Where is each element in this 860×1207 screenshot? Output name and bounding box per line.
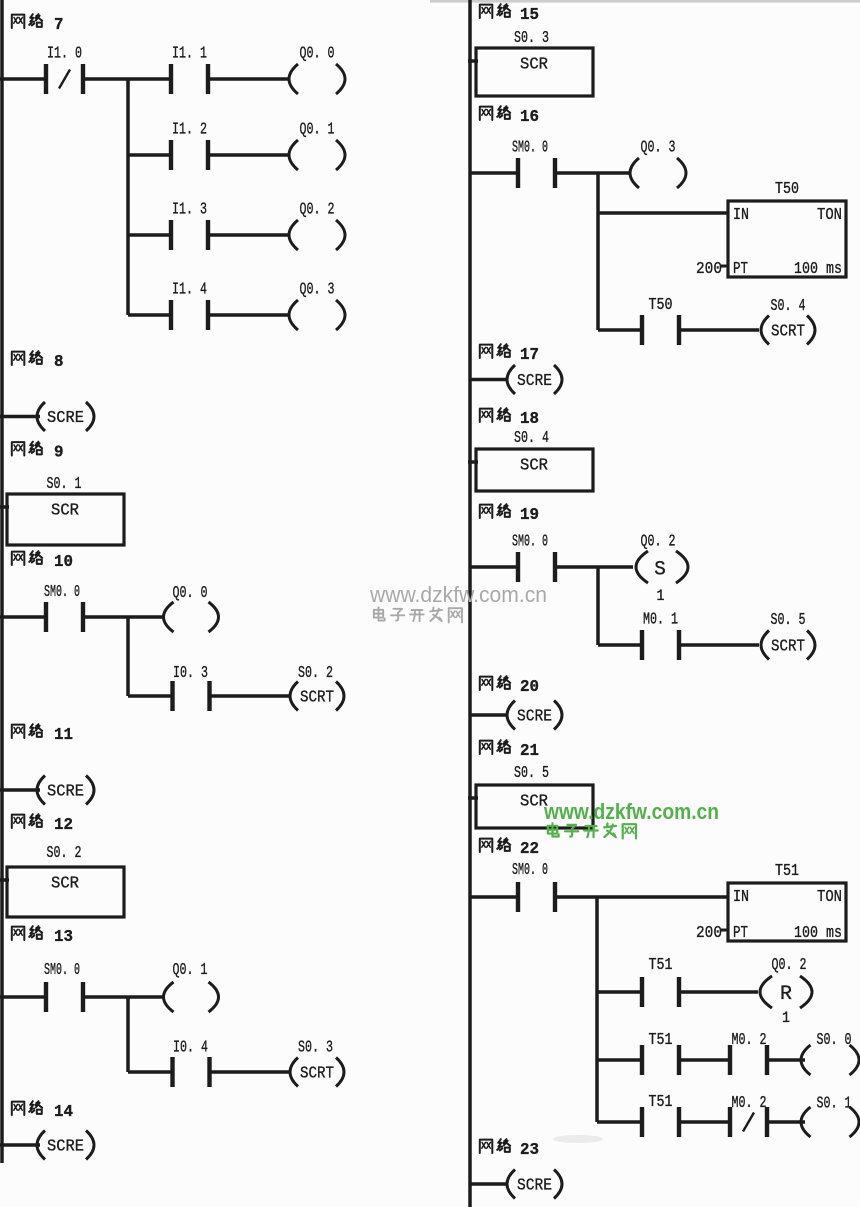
svg-text:14: 14 <box>54 1102 73 1121</box>
svg-text:20: 20 <box>520 677 539 696</box>
svg-text:I0. 4: I0. 4 <box>173 1038 208 1057</box>
svg-text:100 ms: 100 ms <box>794 259 842 278</box>
svg-text:Q0. 1: Q0. 1 <box>173 960 208 979</box>
svg-text:SM0. 0: SM0. 0 <box>512 532 548 551</box>
svg-text:www.dzkfw.com.cn: www.dzkfw.com.cn <box>369 582 547 607</box>
svg-text:IN: IN <box>733 205 749 224</box>
svg-text:SCR: SCR <box>51 874 79 893</box>
svg-text:15: 15 <box>520 5 539 24</box>
svg-text:M0. 2: M0. 2 <box>732 1030 767 1049</box>
svg-text:12: 12 <box>54 815 73 834</box>
svg-text:TON: TON <box>817 205 842 224</box>
svg-text:16: 16 <box>520 107 539 126</box>
svg-text:I1. 1: I1. 1 <box>172 44 207 63</box>
svg-text:17: 17 <box>520 345 539 364</box>
svg-text:23: 23 <box>520 1140 539 1159</box>
svg-text:1: 1 <box>657 587 665 605</box>
svg-text:SCRT: SCRT <box>300 1064 334 1083</box>
svg-text:7: 7 <box>54 15 64 34</box>
svg-text:S0. 3: S0. 3 <box>298 1038 333 1057</box>
svg-text:T51: T51 <box>649 1030 673 1049</box>
svg-text:18: 18 <box>520 409 539 428</box>
svg-text:T50: T50 <box>649 295 673 314</box>
svg-text:Q0. 3: Q0. 3 <box>300 280 335 299</box>
svg-text:T50: T50 <box>775 179 799 198</box>
svg-text:Q0. 2: Q0. 2 <box>772 955 807 974</box>
svg-text:Q0. 1: Q0. 1 <box>300 120 335 139</box>
svg-text:SM0. 0: SM0. 0 <box>44 960 80 979</box>
svg-text:SM0. 0: SM0. 0 <box>44 582 80 601</box>
svg-text:10: 10 <box>54 552 73 571</box>
svg-text:22: 22 <box>520 839 539 858</box>
svg-text:S0. 1: S0. 1 <box>47 474 82 493</box>
svg-text:Q0. 0: Q0. 0 <box>173 583 208 602</box>
svg-text:SM0. 0: SM0. 0 <box>512 860 548 879</box>
svg-text:PT: PT <box>733 923 748 942</box>
svg-text:S0. 5: S0. 5 <box>514 763 549 782</box>
svg-text:21: 21 <box>520 741 539 760</box>
svg-text:TON: TON <box>817 887 842 906</box>
svg-text:200: 200 <box>696 923 722 942</box>
svg-text:Q0. 2: Q0. 2 <box>641 532 676 551</box>
svg-text:200: 200 <box>696 259 722 278</box>
svg-text:I1. 0: I1. 0 <box>47 44 82 63</box>
svg-text:SCRE: SCRE <box>47 408 84 427</box>
svg-text:19: 19 <box>520 505 539 524</box>
svg-text:9: 9 <box>54 443 64 462</box>
svg-text:T51: T51 <box>649 1092 673 1111</box>
svg-text:S0. 4: S0. 4 <box>514 428 549 447</box>
svg-text:13: 13 <box>54 927 73 946</box>
svg-text:I1. 3: I1. 3 <box>172 200 207 219</box>
svg-text:S0. 4: S0. 4 <box>771 296 806 315</box>
svg-text:T51: T51 <box>649 955 673 974</box>
svg-text:SCRT: SCRT <box>300 688 334 707</box>
svg-text:I0. 3: I0. 3 <box>173 663 208 682</box>
svg-text:SCRT: SCRT <box>771 322 805 341</box>
svg-text:SCR: SCR <box>51 501 79 520</box>
svg-text:I1. 2: I1. 2 <box>172 120 207 139</box>
svg-text:S: S <box>654 559 666 582</box>
svg-text:R: R <box>780 983 792 1006</box>
svg-text:Q0. 3: Q0. 3 <box>641 138 676 157</box>
svg-text:Q0. 2: Q0. 2 <box>300 200 335 219</box>
svg-text:S0. 0: S0. 0 <box>817 1030 852 1049</box>
svg-text:SCRE: SCRE <box>517 1176 552 1195</box>
svg-text:T51: T51 <box>775 861 799 880</box>
svg-text:SCR: SCR <box>520 55 548 74</box>
svg-text:Q0. 0: Q0. 0 <box>300 44 335 63</box>
svg-text:SCRE: SCRE <box>517 371 552 390</box>
svg-text:100 ms: 100 ms <box>794 923 842 942</box>
svg-text:SCR: SCR <box>520 456 548 475</box>
svg-text:SCRT: SCRT <box>771 637 805 656</box>
svg-text:S0. 5: S0. 5 <box>771 610 806 629</box>
svg-text:1: 1 <box>782 1009 790 1027</box>
svg-text:8: 8 <box>54 352 64 371</box>
svg-text:SCRE: SCRE <box>47 782 84 801</box>
svg-text:PT: PT <box>733 259 748 278</box>
svg-text:SCRE: SCRE <box>47 1137 84 1156</box>
svg-text:11: 11 <box>54 725 73 744</box>
svg-text:S0. 3: S0. 3 <box>514 28 549 47</box>
svg-text:S0. 2: S0. 2 <box>298 663 333 682</box>
svg-text:M0. 2: M0. 2 <box>732 1093 767 1112</box>
svg-text:SCRE: SCRE <box>517 707 552 726</box>
svg-text:IN: IN <box>733 887 749 906</box>
svg-text:S0. 1: S0. 1 <box>817 1094 852 1113</box>
svg-text:www.dzkfw.com.cn: www.dzkfw.com.cn <box>543 799 719 824</box>
svg-text:M0. 1: M0. 1 <box>643 610 678 629</box>
svg-text:SM0. 0: SM0. 0 <box>512 138 548 157</box>
svg-text:S0. 2: S0. 2 <box>47 843 82 862</box>
svg-text:I1. 4: I1. 4 <box>172 280 207 299</box>
